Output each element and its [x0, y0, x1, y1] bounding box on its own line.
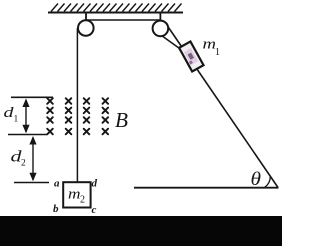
middle tick between d1 and d2: [8, 134, 47, 136]
right pulley: [153, 21, 169, 37]
block m1 on incline: [179, 42, 203, 72]
ceiling hatching: [51, 4, 182, 12]
string between pulleys: [86, 19, 160, 21]
svg-text:1: 1: [215, 47, 220, 58]
svg-text:c: c: [92, 204, 97, 216]
d2 dimension arrow: [29, 136, 36, 181]
svg-text:d: d: [92, 178, 98, 190]
svg-text:θ: θ: [251, 169, 262, 190]
incline surface: [168, 26, 279, 188]
right pulley support: [159, 13, 161, 28]
d1 top tick: [11, 96, 53, 98]
svg-text:1: 1: [14, 115, 19, 125]
mass m2 box: [63, 182, 90, 207]
left pulley support: [85, 13, 87, 28]
angle arc: [265, 176, 271, 187]
svg-text:B: B: [115, 108, 128, 132]
svg-text:b: b: [53, 203, 59, 215]
ground line: [134, 187, 279, 189]
svg-text:2: 2: [80, 195, 85, 206]
svg-text:m: m: [68, 187, 81, 203]
string from right pulley to block m1: [162, 36, 182, 50]
d2 bottom tick: [14, 182, 49, 184]
magnetic field region B (x symbols, 4 cols x 4 rows): [47, 98, 108, 134]
svg-text:a: a: [54, 178, 60, 190]
black bar at bottom: [0, 216, 282, 246]
d1 dimension arrow: [22, 99, 29, 134]
vertical string from left pulley to m2: [76, 28, 78, 183]
ceiling line: [48, 12, 183, 14]
svg-text:2: 2: [21, 159, 26, 169]
left pulley: [78, 20, 94, 36]
